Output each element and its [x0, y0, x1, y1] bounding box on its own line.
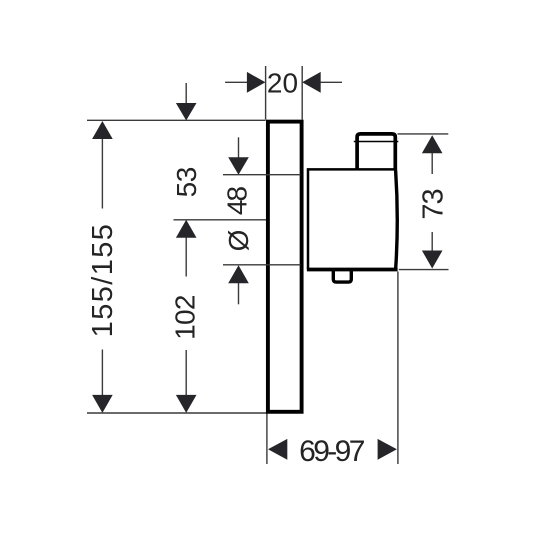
- svg-text:155/155: 155/155: [87, 223, 119, 338]
- svg-text:73: 73: [417, 189, 449, 219]
- svg-text:20: 20: [267, 67, 298, 98]
- svg-text:48: 48: [221, 187, 252, 216]
- svg-text:102: 102: [170, 295, 201, 340]
- svg-text:Ø: Ø: [223, 230, 254, 252]
- svg-text:53: 53: [171, 167, 202, 197]
- svg-text:69-97: 69-97: [299, 435, 365, 468]
